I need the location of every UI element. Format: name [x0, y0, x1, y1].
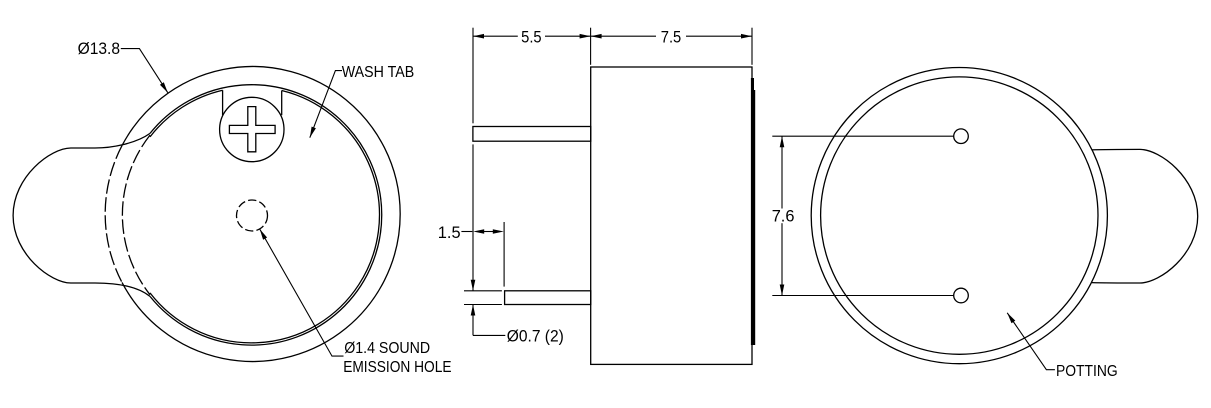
svg-text:EMISSION HOLE: EMISSION HOLE	[343, 359, 451, 376]
svg-text:7.5: 7.5	[661, 28, 682, 46]
svg-text:Ø1.4 SOUND: Ø1.4 SOUND	[344, 340, 430, 357]
svg-text:Ø13.8: Ø13.8	[78, 40, 120, 58]
svg-text:WASH TAB: WASH TAB	[342, 64, 414, 81]
svg-text:7.6: 7.6	[772, 208, 795, 226]
svg-text:POTTING: POTTING	[1056, 363, 1118, 380]
svg-text:Ø0.7 (2): Ø0.7 (2)	[507, 328, 564, 346]
svg-text:1.5: 1.5	[438, 224, 461, 242]
svg-text:5.5: 5.5	[521, 28, 542, 46]
